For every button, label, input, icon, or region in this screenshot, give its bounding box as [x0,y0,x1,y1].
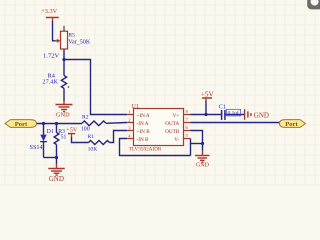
svg-text:+5V: +5V [66,127,78,134]
svg-text:10K: 10K [88,147,98,153]
svg-text:+5V: +5V [201,90,215,98]
svg-text:R1: R1 [88,134,95,140]
svg-text:Var_50K: Var_50K [68,39,91,45]
svg-text:GND: GND [56,112,70,119]
svg-text:1.72V: 1.72V [43,53,60,60]
svg-text:GND: GND [196,163,210,169]
svg-text:SS14: SS14 [30,144,43,151]
svg-text:0.1uf: 0.1uf [228,110,239,117]
svg-text:R2: R2 [82,114,89,120]
svg-text:TLV3502AIDR: TLV3502AIDR [129,146,162,152]
svg-text:51: 51 [61,134,67,140]
svg-text:+3.3V: +3.3V [41,8,57,15]
svg-text:GND: GND [254,112,269,120]
svg-text:U1: U1 [132,104,139,110]
svg-text:V+: V+ [173,113,180,119]
svg-text:C1: C1 [219,104,226,111]
svg-text:OUTA: OUTA [165,121,179,127]
svg-text:OUTB: OUTB [165,129,180,135]
svg-text:100: 100 [81,126,90,132]
svg-text:GND: GND [49,175,64,183]
svg-text:D1: D1 [47,129,54,135]
svg-text:-IN A: -IN A [137,121,149,127]
svg-text:-IN B: -IN B [137,137,149,143]
svg-text:+IN B: +IN B [137,129,151,135]
svg-text:R5: R5 [68,33,75,39]
svg-text:27.4K: 27.4K [42,79,58,86]
svg-text:+IN A: +IN A [137,113,150,119]
svg-text:V-: V- [174,137,179,143]
svg-text:Port: Port [285,121,298,128]
svg-text:Port: Port [15,121,28,128]
